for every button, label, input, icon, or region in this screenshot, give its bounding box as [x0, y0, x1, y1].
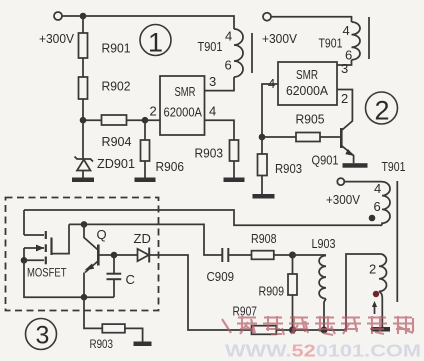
resistor R903 (section1) — [230, 140, 239, 161]
svg-text:R904: R904 — [102, 134, 132, 149]
resistor R905 — [296, 133, 320, 142]
svg-text:Q: Q — [97, 227, 107, 242]
resistor R908 — [252, 251, 274, 260]
svg-text:L903: L903 — [312, 236, 336, 251]
ground — [224, 178, 245, 183]
svg-text:T901: T901 — [198, 39, 223, 54]
svg-text:62000A: 62000A — [164, 105, 203, 120]
svg-text:R909: R909 — [259, 284, 285, 299]
resistor R903 (section2) — [258, 154, 268, 176]
wire — [381, 298, 383, 327]
wire pin4 sec2 — [262, 84, 278, 137]
ground Q901 — [343, 163, 368, 168]
wire collector rail — [69, 224, 222, 255]
ground — [135, 178, 156, 183]
circled 3 — [26, 319, 57, 350]
inductor L903 — [293, 254, 327, 256]
svg-text:3: 3 — [341, 61, 348, 76]
terminal +300V section2 — [263, 13, 271, 21]
node E — [21, 257, 28, 264]
svg-text:4: 4 — [268, 76, 275, 91]
svg-text:6: 6 — [225, 58, 232, 73]
node H — [111, 252, 118, 259]
core T901 right — [396, 181, 398, 302]
svg-text:R903: R903 — [90, 339, 114, 351]
svg-text:ZD: ZD — [134, 231, 151, 246]
terminal +300V section3 — [337, 178, 344, 185]
svg-text:Q901: Q901 — [312, 153, 339, 168]
wire — [144, 161, 146, 178]
wire — [82, 171, 84, 178]
svg-text:SMR: SMR — [296, 67, 318, 82]
node B — [80, 117, 87, 124]
resistor R907 — [252, 326, 277, 335]
svg-text:+300V: +300V — [262, 31, 297, 46]
core T901 — [251, 33, 253, 73]
wire region3 to R903 — [84, 297, 102, 328]
wire base lead — [98, 254, 114, 256]
svg-text:R905: R905 — [296, 112, 325, 127]
wire — [292, 295, 294, 330]
svg-text:T901: T901 — [319, 36, 343, 51]
node G — [81, 294, 88, 301]
MOSFET — [24, 234, 44, 236]
wire — [82, 58, 84, 77]
ground — [253, 194, 275, 199]
node A — [80, 13, 87, 20]
circled 2 — [366, 92, 398, 124]
wire winding bottom — [24, 210, 382, 225]
resistor R909 — [288, 274, 297, 295]
wire — [23, 210, 25, 235]
transformer T901 winding (section1) — [234, 29, 243, 77]
wire — [233, 161, 235, 178]
svg-text:C: C — [126, 272, 135, 287]
dashed box region3 — [6, 198, 159, 311]
svg-text:SMR: SMR — [175, 84, 196, 99]
svg-text:3: 3 — [209, 74, 216, 89]
transistor Q901 — [340, 128, 343, 148]
node C — [142, 117, 149, 124]
wire pin3 sec2 — [337, 60, 352, 65]
svg-text:+300V: +300V — [39, 31, 74, 46]
svg-text:R902: R902 — [102, 79, 131, 94]
svg-text:C909: C909 — [207, 269, 235, 284]
wire top rail — [83, 16, 234, 29]
wire — [274, 254, 293, 256]
svg-text:1: 1 — [148, 28, 163, 58]
op-amp U1 SMR62000A box1 — [160, 76, 205, 135]
svg-text:R908: R908 — [251, 231, 277, 246]
resistor R904 — [102, 115, 127, 125]
phase dot — [369, 215, 376, 222]
svg-text:MOSFET: MOSFET — [27, 268, 67, 280]
wire — [24, 260, 114, 297]
wire — [344, 181, 382, 183]
resistor R902 — [79, 77, 88, 99]
svg-text:R901: R901 — [102, 41, 131, 56]
resistor R901 — [79, 33, 88, 58]
capacitor C909 — [221, 248, 223, 262]
svg-text:4: 4 — [209, 104, 216, 119]
svg-text:T901: T901 — [382, 159, 406, 174]
ground — [371, 327, 390, 332]
op-amp U2 SMR62000A box2 — [278, 62, 337, 105]
transformer T901 winding (section2) — [352, 22, 361, 60]
svg-text:R906: R906 — [156, 159, 185, 174]
ground — [72, 178, 94, 183]
diode ZD — [114, 254, 138, 256]
node F — [81, 221, 88, 228]
node J — [289, 327, 296, 334]
wire — [276, 254, 381, 330]
wire pin2 — [83, 119, 160, 121]
svg-text:4: 4 — [343, 23, 350, 38]
zener ZD901 — [77, 160, 91, 171]
svg-text:4: 4 — [374, 181, 381, 196]
arrow up — [374, 305, 376, 314]
capacitor C — [113, 255, 115, 274]
svg-text:+300V: +300V — [326, 192, 360, 207]
core T901 sec2 — [368, 17, 370, 59]
wire — [125, 328, 143, 341]
svg-text:2: 2 — [150, 104, 157, 119]
wire — [228, 254, 251, 256]
wire pin3 — [205, 77, 235, 91]
resistor R906 — [141, 140, 150, 161]
svg-text:2: 2 — [369, 262, 376, 277]
node D — [259, 134, 266, 141]
wire — [292, 255, 294, 274]
phase dot red — [373, 291, 379, 297]
wire — [82, 99, 84, 160]
svg-text:R907: R907 — [233, 304, 258, 319]
wire — [262, 136, 296, 138]
circled 1 — [140, 25, 171, 56]
transformer T901 winding (bottom right) — [379, 254, 387, 298]
svg-text:3: 3 — [36, 322, 50, 350]
watermark chinese — [222, 316, 413, 335]
wire — [271, 17, 352, 22]
terminal +300V section1 — [54, 12, 62, 20]
ground — [134, 342, 152, 347]
transistor Q — [84, 224, 98, 249]
wire — [320, 136, 340, 138]
svg-text:R903: R903 — [275, 161, 302, 176]
wire — [82, 16, 84, 33]
transformer T901 winding (middle right) — [382, 182, 390, 226]
wire — [261, 137, 263, 154]
wire pin4 — [205, 120, 235, 140]
node K — [321, 327, 328, 334]
resistor R903 (region3) — [102, 324, 125, 333]
svg-text:ZD901: ZD901 — [97, 156, 135, 171]
wire — [261, 176, 263, 195]
wire — [62, 15, 83, 17]
svg-text:4: 4 — [225, 29, 232, 44]
wire gate lead — [52, 224, 70, 253]
svg-text:6: 6 — [374, 199, 381, 214]
svg-text:2: 2 — [341, 91, 348, 106]
svg-text:R903: R903 — [195, 146, 224, 161]
svg-text:WWW.520101.COM: WWW.520101.COM — [225, 341, 421, 361]
wire — [144, 120, 146, 140]
wire — [149, 255, 251, 330]
svg-text:2: 2 — [374, 96, 389, 126]
node I — [289, 252, 296, 259]
svg-text:62000A: 62000A — [286, 83, 328, 98]
